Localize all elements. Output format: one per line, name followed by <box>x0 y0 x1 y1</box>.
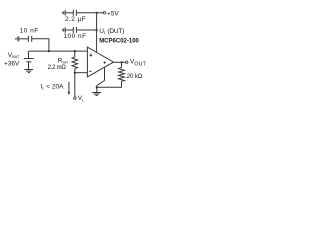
svg-text:20 kΩ: 20 kΩ <box>127 74 143 80</box>
wire RSH top lead <box>74 51 76 57</box>
svg-text:VBAT: VBAT <box>8 52 20 59</box>
wire C2 left lead <box>65 29 73 31</box>
ground G5 (op-amp VSS) <box>92 93 101 96</box>
wire 20k bottom lead and ground return <box>97 81 122 87</box>
terminal VL open circle <box>74 97 76 99</box>
svg-text:+5V: +5V <box>107 10 119 17</box>
wire +5V terminal lead <box>97 12 104 14</box>
node VDD top junction <box>96 12 98 14</box>
resistor R2 20k zigzag <box>119 67 125 81</box>
svg-text:VL: VL <box>78 95 84 102</box>
wire C2 right lead to VDD rail <box>77 29 97 31</box>
wire VSS angled lead to ground node <box>97 81 105 86</box>
wire battery bottom stem <box>28 62 30 69</box>
wire C1 left lead <box>65 12 73 14</box>
wire C1 right lead to VDD rail <box>77 12 97 14</box>
ground G3 (for C3) <box>16 36 19 41</box>
ground G4 (battery) <box>24 70 33 73</box>
node VOUT junction <box>120 61 122 63</box>
wire C3 right lead with bend down to VIP node <box>32 39 49 51</box>
terminal VOUT open circle <box>126 61 128 63</box>
node RSH bottom junction <box>74 72 76 74</box>
op-amp minus sign <box>89 70 92 72</box>
wire C3 left lead <box>19 38 29 40</box>
wire ground node stem <box>96 86 98 93</box>
wire VDD rail vertical <box>96 13 98 53</box>
svg-text:10 nF: 10 nF <box>20 28 39 35</box>
svg-text:VOUT: VOUT <box>130 59 147 68</box>
node 100nF junction <box>96 29 98 31</box>
capacitor C2 100nF plates <box>73 27 76 33</box>
svg-text:2.2 mΩ: 2.2 mΩ <box>48 65 67 71</box>
battery V1 VBAT plates <box>24 59 34 62</box>
node RSH top junction <box>74 50 76 52</box>
svg-text:100 nF: 100 nF <box>63 33 86 40</box>
op-amp U1 triangle <box>87 47 113 77</box>
svg-text:2.2 µF: 2.2 µF <box>65 16 86 23</box>
wire battery top stem <box>28 51 30 58</box>
resistor R1 RSH zigzag <box>72 57 78 69</box>
wire output wire <box>114 61 126 63</box>
svg-text:RSH: RSH <box>58 57 68 64</box>
svg-text:IL < 20A: IL < 20A <box>41 83 65 90</box>
wire 20k top lead <box>121 62 123 67</box>
svg-text:+36V: +36V <box>4 61 20 68</box>
wire RSH bottom lead down to VL terminal <box>74 69 76 97</box>
wire VIM input wire <box>75 72 88 74</box>
node 10nF/VIP junction <box>48 50 50 52</box>
op-amp plus sign <box>90 54 93 57</box>
svg-text:MCP6C02-100: MCP6C02-100 <box>99 38 139 44</box>
wire VSS pin stub <box>104 67 106 80</box>
ground G1 (for C1) <box>62 10 65 15</box>
svg-text:U1 (DUT): U1 (DUT) <box>99 28 124 35</box>
terminal +5V open circle <box>103 12 105 14</box>
ground G2 (for C2) <box>62 27 65 32</box>
annotation IL arrow <box>68 82 71 95</box>
wire main top VIP wire <box>29 50 88 52</box>
node VSS ground junction <box>96 86 98 88</box>
capacitor C3 10nF plates <box>28 36 31 42</box>
op-amp internal marker dot <box>103 61 106 64</box>
capacitor C1 2.2uF plates <box>73 10 76 16</box>
